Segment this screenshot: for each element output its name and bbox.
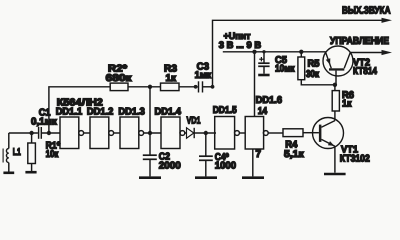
svg-text:1мк: 1мк bbox=[195, 70, 212, 81]
resistor R2 bbox=[110, 83, 128, 91]
svg-text:1000: 1000 bbox=[215, 161, 237, 172]
ground (pin 7) bbox=[242, 176, 264, 179]
inverter DD1.1 bbox=[60, 117, 79, 149]
svg-text:УПРАВЛЕНИЕ: УПРАВЛЕНИЕ bbox=[330, 36, 389, 47]
node: VT2 base node bbox=[333, 83, 337, 87]
svg-text:DD1.5: DD1.5 bbox=[213, 105, 237, 116]
wire: riser to feedback bbox=[149, 87, 151, 133]
svg-text:DD1.1: DD1.1 bbox=[56, 106, 83, 117]
svg-text:5,1к: 5,1к bbox=[284, 149, 304, 160]
wire bbox=[144, 132, 161, 134]
svg-text:DD1.4: DD1.4 bbox=[155, 106, 182, 117]
inverter DD1.2 bbox=[90, 117, 109, 149]
node: small junction before C3 bbox=[194, 85, 198, 89]
capacitor C3 bbox=[198, 81, 200, 92]
svg-text:2000: 2000 bbox=[159, 161, 182, 172]
inverter DD1.3 bbox=[120, 117, 139, 149]
ground (C4) bbox=[195, 176, 217, 179]
wire: audio output top wire bbox=[213, 20, 383, 87]
svg-text:R5: R5 bbox=[308, 58, 321, 69]
node: DD1.3 out junction bbox=[148, 131, 152, 135]
svg-text:ВЫХ.ЗВУКА: ВЫХ.ЗВУКА bbox=[342, 6, 391, 17]
wire VD1 to DD1.5 bbox=[194, 132, 216, 134]
VT2 base stub bbox=[335, 71, 337, 85]
svg-text:L1: L1 bbox=[13, 147, 21, 158]
wire R4 to VT1 base bbox=[303, 132, 319, 134]
node: rail/R5 bbox=[299, 50, 303, 54]
inverter DD1.5 bbox=[215, 117, 235, 150]
wire bbox=[185, 132, 187, 134]
wire bbox=[84, 132, 90, 134]
transistor VT2 (КТ814) bbox=[323, 46, 353, 76]
svg-text:1к: 1к bbox=[342, 99, 352, 110]
node: detector node bbox=[204, 131, 208, 135]
VT1 base bar bbox=[319, 125, 322, 142]
svg-text:КТ3102: КТ3102 bbox=[340, 153, 370, 164]
svg-text:1к: 1к bbox=[166, 73, 177, 84]
C5 plus sign bbox=[259, 58, 263, 60]
capacitor C4 bbox=[205, 133, 207, 156]
inverter DD1.6 bbox=[245, 117, 263, 150]
resistor R3 bbox=[161, 83, 180, 91]
wire R2 to node bbox=[128, 86, 161, 88]
wire R3 to C3 bbox=[179, 86, 198, 88]
wire: input node bbox=[9, 132, 38, 134]
wire: feedback riser left bbox=[49, 87, 110, 133]
inverter DD1.4 bbox=[161, 117, 180, 149]
node: audio out arrowhead bbox=[382, 18, 393, 23]
wire bbox=[114, 132, 120, 134]
svg-text:680к: 680к bbox=[106, 73, 132, 84]
resistor R1 bbox=[31, 133, 33, 143]
svg-text:10мк: 10мк bbox=[275, 63, 295, 74]
VT1 emitter to ground bbox=[334, 146, 336, 173]
svg-text:10к: 10к bbox=[46, 149, 59, 160]
VT2 emitter diagonal with arrow to bar bbox=[326, 53, 332, 69]
resistor R4 bbox=[283, 129, 303, 137]
svg-text:DD1.3: DD1.3 bbox=[118, 106, 145, 117]
ground (VT1) bbox=[324, 173, 346, 176]
ground (C5) bbox=[258, 74, 269, 77]
wire DD1.6 out to R4 bbox=[268, 132, 283, 134]
VT2 collector diagonal bbox=[344, 53, 350, 69]
svg-text:DD1.6: DD1.6 bbox=[256, 95, 283, 106]
ground (C2) bbox=[139, 176, 161, 179]
node: rail/pin14 bbox=[252, 50, 256, 54]
inductor L1 bbox=[8, 133, 10, 149]
wire: pin 7 to ground bbox=[252, 149, 254, 176]
VT1 emitter diagonal with arrow bbox=[321, 139, 335, 146]
power rail bbox=[223, 51, 326, 53]
wire: pin 14 to rail bbox=[254, 52, 256, 117]
svg-text:VD1: VD1 bbox=[187, 116, 201, 127]
L1 core line bbox=[2, 149, 4, 163]
svg-text:3 В ... 9 В: 3 В ... 9 В bbox=[219, 39, 262, 50]
svg-text:DD1.2: DD1.2 bbox=[87, 106, 114, 117]
wire: control output bbox=[350, 52, 382, 54]
node: C3/riser junction bbox=[211, 85, 215, 89]
node: junction C1/R2 feedback bbox=[47, 131, 51, 135]
svg-text:7: 7 bbox=[256, 149, 262, 160]
svg-text:КТ814: КТ814 bbox=[353, 66, 377, 77]
capacitor C1 bbox=[38, 127, 40, 139]
svg-text:14: 14 bbox=[258, 106, 268, 117]
capacitor C5 (electrolytic) bbox=[263, 52, 265, 63]
node: junction C1/R1/L1 bbox=[29, 131, 33, 135]
resistor R5 bbox=[300, 52, 302, 57]
resistor R6 bbox=[334, 85, 336, 91]
VT2 base bar bbox=[329, 68, 344, 70]
svg-text:30к: 30к bbox=[306, 69, 319, 80]
capacitor C2 bbox=[149, 133, 151, 155]
svg-text:0,1мк: 0,1мк bbox=[31, 117, 57, 128]
VT1 collector diagonal bbox=[321, 121, 335, 128]
wire bbox=[239, 132, 245, 134]
ground (L1) bbox=[3, 172, 14, 175]
ground (R1) bbox=[25, 171, 36, 174]
diode VD1 bbox=[187, 128, 194, 138]
node: feedback junction bbox=[148, 85, 152, 89]
transistor VT1 (КТ3102) bbox=[313, 118, 344, 149]
